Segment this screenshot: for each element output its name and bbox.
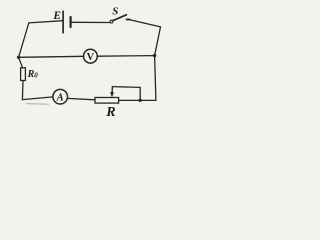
rheostat R box xyxy=(95,98,119,104)
ammeter A1 circle xyxy=(53,89,68,104)
svg-text:R0: R0 xyxy=(27,69,39,80)
wire left vertical to R0 xyxy=(19,57,23,68)
svg-text:E: E xyxy=(52,10,61,22)
junction node right (voltmeter tap) xyxy=(153,54,156,57)
svg-text:R: R xyxy=(105,105,115,120)
svg-text:V: V xyxy=(87,52,95,63)
wire ammeter to rheostat xyxy=(68,98,95,99)
junction node left (voltmeter tap) xyxy=(17,56,20,59)
wire bottom-left to ammeter xyxy=(22,97,53,100)
wire top-left horizontal xyxy=(29,21,63,23)
wire switch to top-right corner xyxy=(130,20,161,27)
wire R0 to bottom-left corner xyxy=(21,81,24,100)
scan smudge under bottom wire xyxy=(26,103,49,106)
voltmeter U1 circle xyxy=(84,49,98,63)
switch S pivot contact xyxy=(110,20,113,23)
switch S blade xyxy=(113,15,127,21)
wire battery to switch xyxy=(72,21,110,23)
wire right vertical xyxy=(155,27,161,101)
wire voltmeter branch left xyxy=(19,56,84,57)
wire left vertical upper xyxy=(19,23,29,57)
battery E long plate xyxy=(62,11,64,33)
wire wiper horizontal xyxy=(112,86,140,89)
wire rheostat to bottom-right corner xyxy=(119,99,156,101)
wire voltmeter branch right xyxy=(97,55,154,58)
rheostat wiper arrowhead xyxy=(110,92,114,97)
battery E short plate xyxy=(69,17,71,27)
rheostat wiper stem xyxy=(111,87,113,93)
switch S right contact xyxy=(127,18,130,20)
junction node wiper/bottom wire xyxy=(139,99,142,102)
svg-text:A: A xyxy=(56,93,64,104)
wire wiper down to bottom wire xyxy=(139,87,141,100)
svg-text:S: S xyxy=(112,6,118,18)
resistor R0 box xyxy=(21,68,26,81)
